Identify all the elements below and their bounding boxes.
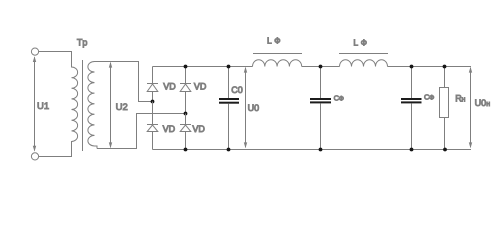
node (C2 bottom junction) — [319, 148, 323, 152]
top rail right segment — [388, 66, 472, 68]
svg-text:VD: VD — [192, 124, 205, 134]
node (C3 bottom junction) — [410, 148, 414, 152]
svg-text:Ф: Ф — [339, 95, 344, 102]
wire (secondary top to rectifier node A) — [95, 62, 153, 102]
transformer core — [82, 60, 84, 151]
voltage arrow U0n (output) — [469, 67, 472, 148]
wire (secondary bottom to rectifier node B) — [97, 114, 186, 149]
svg-text:н: н — [486, 101, 490, 108]
node (VD2 top junction) — [184, 65, 188, 69]
terminal (input top-left) — [31, 48, 38, 55]
svg-text:C0: C0 — [231, 85, 243, 95]
transformer Tp secondary winding — [88, 62, 97, 149]
inductor L2 (filter choke) — [340, 60, 388, 67]
svg-text:VD: VD — [194, 82, 207, 92]
voltage arrow U0 — [244, 67, 247, 148]
diode VD4 (right column bottom) — [180, 125, 191, 150]
resistor Rn (load) — [440, 67, 449, 150]
terminal (input bottom-left) — [31, 153, 38, 160]
svg-text:U0: U0 — [475, 98, 487, 108]
top rail segment between chokes — [302, 66, 340, 68]
transformer Tp primary winding with input wires — [39, 52, 78, 157]
node (C3 top junction) — [410, 65, 414, 69]
svg-text:н: н — [462, 97, 466, 104]
diode VD1 (left column top) — [147, 67, 158, 102]
svg-text:L: L — [267, 36, 272, 46]
inductor L1 core bar — [253, 53, 302, 55]
svg-text:Ф: Ф — [274, 37, 280, 46]
capacitor C3 (second filter cap) — [401, 67, 422, 150]
svg-text:U1: U1 — [37, 101, 49, 112]
node (Rn bottom junction) — [443, 148, 447, 152]
inductor L1 (filter choke) — [253, 60, 302, 67]
wire (node B down to VD4) — [185, 114, 187, 125]
node (VD4 bottom junction) — [184, 148, 188, 152]
voltage arrow U2 — [109, 62, 112, 148]
top rail (+) left segment — [153, 66, 253, 68]
node (C0 top junction) — [227, 65, 231, 69]
voltage arrow U1 — [33, 56, 36, 151]
node A (left column mid junction) — [151, 100, 155, 104]
diode VD2 (right column top) — [180, 67, 191, 114]
svg-text:Ф: Ф — [429, 94, 434, 101]
node (C0 bottom junction) — [227, 148, 231, 152]
svg-text:U2: U2 — [116, 102, 128, 113]
inductor L2 core bar — [339, 53, 388, 55]
diode VD3 (left column bottom) — [147, 125, 158, 150]
svg-text:VD: VD — [163, 124, 176, 134]
svg-text:L: L — [353, 38, 358, 48]
wire (node A down to VD3) — [152, 102, 154, 125]
svg-text:VD: VD — [163, 82, 176, 92]
bottom rail (-) — [153, 149, 472, 151]
svg-text:Ф: Ф — [361, 39, 367, 48]
node (C2 top junction) — [319, 65, 323, 69]
node B (right column mid junction) — [184, 112, 188, 116]
svg-text:Tp: Tp — [77, 37, 88, 47]
capacitor C2 (first filter cap) — [310, 67, 331, 150]
capacitor C0 — [219, 67, 239, 150]
svg-text:U0: U0 — [248, 103, 260, 113]
node (Rn top junction) — [443, 65, 447, 69]
